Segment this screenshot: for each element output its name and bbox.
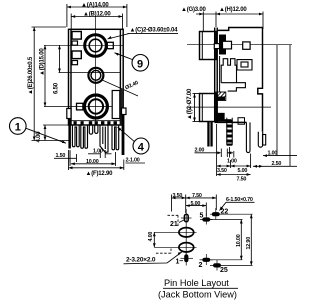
centerline top jack	[44, 44, 123, 46]
svg-text:1.00: 1.00	[227, 158, 237, 164]
right bracket pin (filled)	[122, 115, 125, 156]
stub pin 2	[95, 125, 98, 133]
balloon 9	[115, 53, 149, 71]
svg-text:10.00: 10.00	[86, 159, 99, 165]
dim 4.00 pin layout	[148, 232, 156, 248]
dim 12.90 pin layout	[246, 214, 253, 265]
hole 2 (slot, filled)	[199, 254, 214, 269]
key tab right of top jack	[107, 42, 113, 48]
svg-text:10.00: 10.00	[236, 234, 242, 247]
left bracket pin (filled)	[68, 119, 71, 149]
dim 10.00 pin layout	[210, 220, 243, 260]
svg-text:▲(B)12.00: ▲(B)12.00	[83, 12, 111, 18]
terminal marks in bottom band	[74, 121, 117, 125]
dim 1.00 right side	[263, 45, 297, 157]
front view body outline	[69, 29, 124, 125]
svg-text:(Jack Bottom View): (Jack Bottom View)	[158, 290, 237, 300]
svg-text:1: 1	[15, 122, 21, 134]
svg-text:5: 5	[200, 212, 204, 219]
dim 4.00 lower left	[36, 125, 68, 143]
dim A 14.00 top of front view	[67, 2, 127, 27]
dim 2-1.00	[126, 158, 146, 164]
svg-text:7.50: 7.50	[237, 176, 247, 182]
dim E 26.00 left	[28, 27, 70, 141]
pin hole layout: dim 5.00	[186, 201, 207, 216]
side view: dim H 12.00	[216, 7, 263, 29]
svg-text:▲(I)2-Ø7.00: ▲(I)2-Ø7.00	[187, 88, 193, 120]
dim I 2-dia7.00	[187, 88, 200, 121]
svg-text:6.50: 6.50	[54, 82, 60, 94]
svg-text:▲(F)12.90: ▲(F)12.90	[86, 171, 114, 177]
jack ring bottom inner	[89, 99, 103, 113]
svg-text:▲(G)3.00: ▲(G)3.00	[181, 7, 207, 13]
centerline middle hole	[59, 72, 121, 74]
fork pin 4	[112, 125, 119, 150]
side centerline top jack	[187, 44, 292, 46]
side pin under barrel (black fork)	[207, 122, 212, 147]
front face double line	[214, 28, 216, 123]
right inner post of front view	[112, 91, 120, 119]
middle pin hole ring outer	[88, 68, 103, 83]
middle pin hole ring inner	[91, 70, 101, 80]
vertical centerline of jacks	[95, 17, 97, 121]
fork pin 1	[72, 125, 79, 147]
right edge	[258, 28, 263, 132]
dim F 12.90 bottom front	[69, 150, 124, 177]
svg-text:▲(H)12.00: ▲(H)12.00	[219, 7, 247, 13]
svg-text:21: 21	[170, 221, 178, 228]
top barrel	[200, 32, 217, 60]
bottom edge	[215, 121, 247, 123]
fork pin 2	[81, 125, 88, 148]
svg-text:5.00: 5.00	[191, 201, 201, 207]
side molded block details	[221, 59, 252, 91]
dim row 3.50 / 5.00 side	[217, 124, 251, 176]
front shield slot top-left	[72, 32, 81, 40]
side right foot	[258, 132, 265, 147]
left mounting tab	[67, 109, 71, 119]
dim 1.00 bottom front	[88, 148, 112, 158]
center fork pin with diagonal	[100, 125, 108, 153]
balloon 1	[9, 118, 66, 144]
hole 5 (slot, filled)	[200, 212, 213, 224]
hatched solder tab lower	[216, 113, 231, 121]
side view body	[200, 28, 263, 132]
bottom barrel	[200, 94, 217, 122]
pin hole layout: dim row 3.50/7.50	[172, 193, 217, 213]
svg-text:3.50: 3.50	[217, 168, 227, 174]
svg-text:2-3.20×2.0: 2-3.20×2.0	[126, 257, 156, 264]
dim 2.00 side bottom	[195, 148, 234, 158]
dim D 15.00 left	[40, 45, 47, 106]
svg-text:9: 9	[137, 58, 143, 70]
front shield slot mid-left	[72, 51, 81, 59]
hatched solder tab upper	[216, 92, 226, 101]
6-1.50x0.70 label	[220, 197, 255, 211]
jack ring bottom outer	[84, 95, 107, 118]
side inner contact details top	[214, 35, 250, 55]
svg-text:1: 1	[176, 258, 180, 265]
svg-text:22: 22	[221, 209, 229, 216]
top edge with step	[217, 28, 262, 31]
dim 10.00 bottom front	[70, 150, 116, 166]
svg-text:▲(C)2-Ø3.60±0.04: ▲(C)2-Ø3.60±0.04	[130, 28, 179, 34]
svg-text:5.00: 5.00	[238, 168, 248, 174]
dim 1.50 bottom front	[54, 151, 77, 162]
side view: dim G 3.00	[181, 7, 216, 31]
hole 21 (slot)	[170, 209, 192, 228]
right mounting tab	[122, 108, 127, 115]
side white leg	[246, 122, 250, 152]
dashed outline corner	[156, 215, 178, 253]
svg-text:25: 25	[220, 267, 228, 274]
dim B 12.00	[71, 12, 122, 29]
svg-text:12.90: 12.90	[246, 237, 252, 250]
jack ring top (inner)	[89, 39, 102, 52]
caption: Pin Hole Layout	[158, 278, 238, 300]
balloon 4	[118, 127, 150, 154]
svg-text:7.50: 7.50	[192, 193, 202, 199]
side ladder terminal	[226, 118, 232, 146]
2-3.20x2.0 label	[124, 252, 183, 264]
dim 7.50 side	[217, 173, 251, 182]
hole 22 (slot, filled)	[210, 208, 253, 220]
hole 1 (slot, filled)	[176, 252, 194, 266]
oval hole lower 3.20x2.0	[154, 243, 197, 252]
dim 1.00 side bottom (ladder width)	[227, 147, 237, 164]
svg-text:▲(D)15.00: ▲(D)15.00	[40, 48, 46, 76]
jack ring top (outer)	[85, 35, 107, 57]
dark right flange strip	[120, 89, 123, 125]
dim 6.50 left	[54, 45, 61, 94]
svg-text:4.00: 4.00	[148, 232, 154, 242]
dia2.40 label with leader	[101, 80, 139, 97]
small rect at body bottom right	[238, 118, 245, 125]
dim 2.50 right side	[253, 45, 297, 168]
svg-text:▲(A)14.00: ▲(A)14.00	[81, 2, 109, 8]
key tab left of bottom jack	[77, 103, 83, 110]
dim C label 2-dia3.60 with leader to top jack	[108, 28, 179, 40]
hole 25 (slot, filled)	[210, 260, 253, 275]
centerline bottom jack	[44, 106, 121, 108]
svg-text:3.50: 3.50	[173, 193, 183, 199]
svg-text:Pin Hole Layout: Pin Hole Layout	[164, 278, 229, 288]
svg-text:▲(E)26.00±0.5: ▲(E)26.00±0.5	[28, 56, 34, 95]
stub pin 1	[89, 125, 92, 134]
svg-text:4: 4	[138, 142, 145, 154]
oval hole upper 3.20x2.0	[154, 226, 197, 254]
side centerline bottom jack	[187, 106, 271, 108]
svg-text:2: 2	[199, 262, 203, 269]
